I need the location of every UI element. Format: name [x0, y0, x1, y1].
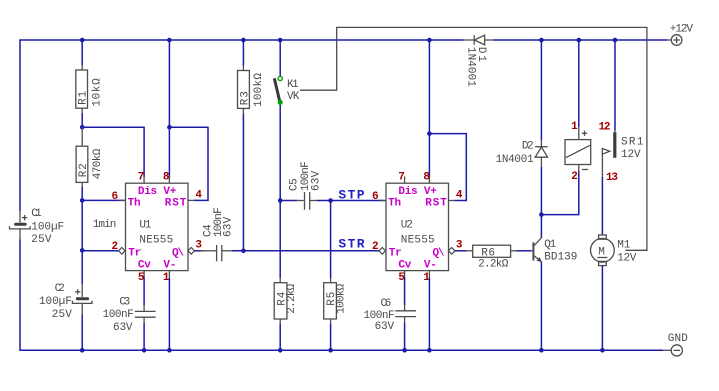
wire U1 pin 3 to C4: [195, 250, 204, 252]
svg-text:V-: V-: [424, 260, 437, 272]
wire R3 top from rail: [242, 40, 244, 66]
node R5 rail junction: [328, 348, 333, 353]
wire R6 to Q1 base: [517, 250, 532, 252]
svg-text:2: 2: [571, 171, 578, 183]
node C3 rail junction: [142, 348, 147, 353]
wire C3 bottom to rail: [143, 323, 145, 350]
svg-text:STP: STP: [338, 187, 364, 202]
svg-text:NE555: NE555: [401, 234, 435, 246]
svg-text:V+: V+: [424, 186, 437, 198]
wire C5 left: [280, 200, 297, 202]
wire U2 pin 5 down: [404, 277, 406, 305]
wire R1 top from rail: [81, 40, 83, 65]
node K1 C5 R4 junction: [278, 198, 283, 203]
svg-text:2.2kΩ: 2.2kΩ: [478, 259, 509, 271]
wire R5 bottom to rail: [330, 324, 332, 351]
svg-text:C2: C2: [55, 283, 65, 295]
node STP R5 junction: [328, 198, 333, 203]
svg-text:25V: 25V: [31, 234, 52, 246]
wire +12V top rail: [20, 40, 464, 211]
svg-text:6: 6: [112, 191, 119, 203]
transistor Q1: [531, 238, 577, 264]
svg-text:Th: Th: [388, 198, 401, 210]
svg-text:63V: 63V: [311, 170, 323, 191]
capacitor C1: [10, 208, 65, 246]
op-amp U2 NE555: [372, 172, 463, 285]
node D2 rail junction: [539, 38, 544, 43]
wire SR1 pin 13 to motor: [601, 177, 603, 235]
wire R3 bottom to STR: [242, 113, 244, 250]
svg-text:U1: U1: [139, 219, 151, 231]
svg-text:6: 6: [372, 191, 379, 203]
svg-text:63V: 63V: [113, 322, 133, 334]
svg-text:D2: D2: [522, 141, 534, 153]
node SR1 rail junction: [613, 38, 618, 43]
svg-text:NE555: NE555: [139, 234, 173, 246]
svg-text:Dis: Dis: [398, 186, 417, 198]
wire STR from C4 to U2 pin 2: [232, 250, 379, 252]
svg-text:100kΩ: 100kΩ: [335, 283, 347, 313]
wire C6 bottom to rail: [404, 322, 406, 350]
node R3 rail junction: [241, 38, 246, 43]
diode D2: [496, 140, 548, 166]
node R3 STR junction: [241, 249, 246, 254]
wire SR1 pin 12 from rail: [614, 40, 616, 131]
svg-text:Dis: Dis: [138, 186, 157, 198]
svg-text:7: 7: [398, 172, 405, 184]
node U2 pin1 rail junction: [427, 348, 432, 353]
svg-text:M1: M1: [617, 239, 631, 251]
node +12V supply symbol: [667, 23, 693, 45]
svg-text:R1: R1: [78, 91, 90, 105]
node D2 Q1 relay junction: [539, 212, 544, 217]
wire R1 bottom to junction: [81, 113, 83, 127]
wire C2 bottom to rail: [81, 315, 83, 351]
wire relay coil top from rail: [578, 40, 580, 127]
node GND supply symbol: [663, 333, 688, 356]
resistor R4: [274, 278, 298, 324]
relay coil SR1: [565, 121, 591, 183]
svg-text:7: 7: [138, 172, 145, 184]
wire U2 RST loop: [429, 134, 466, 201]
node U1 pin1 rail junction: [167, 348, 172, 353]
resistor R3: [238, 66, 265, 114]
svg-text:Q\: Q\: [172, 248, 184, 260]
svg-text:R2: R2: [78, 163, 90, 177]
switch K1: [274, 76, 300, 105]
svg-text:4: 4: [195, 190, 202, 202]
svg-text:Q\: Q\: [433, 248, 445, 260]
svg-text:+12V: +12V: [670, 23, 694, 35]
node R1 R2 junction: [80, 125, 85, 130]
svg-text:1min: 1min: [93, 219, 117, 231]
svg-text:100nF: 100nF: [103, 309, 134, 321]
capacitor C6: [364, 298, 417, 333]
svg-text:8: 8: [423, 172, 430, 184]
node U1 V+ rail junction: [167, 38, 172, 43]
capacitor C3: [103, 297, 156, 334]
svg-text:4: 4: [456, 190, 463, 202]
svg-text:Q1: Q1: [544, 239, 556, 251]
svg-text:Tr: Tr: [128, 248, 141, 260]
svg-text:BD139: BD139: [544, 252, 577, 264]
wire relay coil bottom net: [541, 172, 578, 215]
node U2 V+ RST junction: [427, 131, 432, 136]
node C6 rail junction: [402, 348, 407, 353]
wire D2 top from rail: [540, 40, 542, 140]
svg-text:63V: 63V: [223, 216, 235, 237]
svg-text:C5: C5: [289, 178, 301, 191]
motor M1: [591, 235, 637, 266]
svg-text:C1: C1: [31, 208, 42, 220]
svg-text:Th: Th: [128, 198, 141, 210]
wire K1 junction down to R4: [279, 201, 281, 279]
svg-text:V+: V+: [163, 186, 176, 198]
svg-text:STR: STR: [338, 236, 364, 251]
diode D1: [464, 35, 494, 87]
node Q1 emitter rail junction: [539, 348, 544, 353]
resistor R1: [76, 65, 104, 113]
node R4 rail junction: [278, 348, 283, 353]
wire Dis net to U1 pin 7: [82, 127, 144, 177]
svg-text:25V: 25V: [52, 309, 72, 321]
wire U2 V+ from rail to pin 8: [428, 40, 430, 177]
svg-text:Cv: Cv: [138, 260, 151, 272]
svg-text:3: 3: [195, 240, 202, 252]
svg-text:12V: 12V: [617, 252, 637, 264]
node C2 rail junction: [80, 348, 85, 353]
svg-text:10kΩ: 10kΩ: [91, 78, 103, 107]
wire D2 bottom to Q1 collector junction: [540, 167, 542, 215]
wire U1 RST loop: [169, 127, 208, 200]
svg-text:2.2kΩ: 2.2kΩ: [286, 283, 298, 313]
capacitor C4: [200, 207, 234, 261]
wire Q1 emitter to rail: [540, 262, 542, 351]
svg-text:100kΩ: 100kΩ: [253, 73, 265, 107]
svg-text:100µF: 100µF: [31, 222, 64, 234]
svg-text:2: 2: [112, 241, 119, 253]
svg-text:1N4001: 1N4001: [496, 154, 534, 166]
svg-text:8: 8: [163, 172, 170, 184]
svg-text:3: 3: [456, 240, 463, 252]
svg-text:13: 13: [606, 172, 618, 184]
node U1 V+ RST junction: [167, 125, 172, 130]
capacitor C5: [289, 161, 323, 209]
svg-text:RST: RST: [425, 198, 447, 210]
svg-text:M: M: [598, 246, 605, 258]
node K1 rail junction: [278, 38, 283, 43]
wire R4 bottom to rail: [279, 324, 281, 351]
wire STP junction down to R5: [330, 201, 332, 279]
op-amp U1 NE555: [112, 172, 203, 285]
wire U1 pin 5 down: [143, 277, 145, 305]
wire M1 bottom to rail: [601, 266, 603, 351]
wire Tr to U1 pin 2: [82, 250, 118, 252]
svg-text:C6: C6: [381, 298, 392, 310]
svg-text:Tr: Tr: [389, 248, 402, 260]
svg-text:Cv: Cv: [398, 260, 411, 272]
wire Th to U1 pin 6: [82, 199, 124, 201]
svg-text:SR1: SR1: [621, 137, 644, 149]
svg-text:K1: K1: [287, 79, 299, 91]
svg-text:12V: 12V: [621, 149, 641, 161]
resistor R2: [76, 127, 104, 187]
wire Q1 collector up to D2 junction: [540, 215, 542, 238]
wire GND bottom rail: [20, 240, 663, 351]
resistor R5: [324, 278, 348, 324]
node relay rail junction: [577, 38, 582, 43]
svg-text:R3: R3: [239, 91, 251, 105]
node Tr junction: [80, 248, 85, 253]
svg-text:12: 12: [599, 122, 611, 134]
svg-text:U2: U2: [401, 219, 413, 231]
svg-text:R6: R6: [481, 247, 495, 259]
capacitor C2: [39, 283, 92, 321]
relay contact SR1: [599, 122, 644, 185]
node U2 V+ rail junction: [427, 38, 432, 43]
svg-text:470kΩ: 470kΩ: [92, 148, 104, 179]
svg-text:V-: V-: [163, 260, 176, 272]
wire U1 V+ from rail to pin 8: [168, 40, 170, 177]
wire top rail right of D1: [493, 39, 667, 41]
wire R2 bottom down: [81, 187, 83, 250]
svg-text:2: 2: [372, 241, 379, 253]
svg-text:RST: RST: [165, 198, 187, 210]
resistor R6: [466, 245, 516, 271]
node R1 rail junction: [80, 38, 85, 43]
node M1 rail junction: [600, 348, 605, 353]
svg-text:GND: GND: [668, 333, 688, 345]
wire U2 pin 1 to rail: [428, 277, 430, 350]
svg-text:63V: 63V: [375, 321, 395, 333]
svg-text:100µF: 100µF: [39, 296, 72, 308]
wire K1 top from rail: [279, 40, 281, 76]
wire K1 linkage gray: [300, 27, 647, 250]
wire U1 pin 1 to rail: [168, 277, 170, 350]
svg-text:1N4001: 1N4001: [465, 47, 477, 87]
wire C2 top: [81, 250, 83, 283]
wire U2 pin 3 to R6: [455, 250, 466, 252]
wire K1 bottom to C5 junction: [279, 105, 281, 201]
svg-text:1: 1: [571, 121, 578, 133]
wire STP from C5 to U2 pin 6: [317, 200, 385, 202]
svg-text:C3: C3: [119, 297, 130, 309]
node Th junction: [80, 198, 85, 203]
svg-text:VK: VK: [287, 91, 300, 103]
